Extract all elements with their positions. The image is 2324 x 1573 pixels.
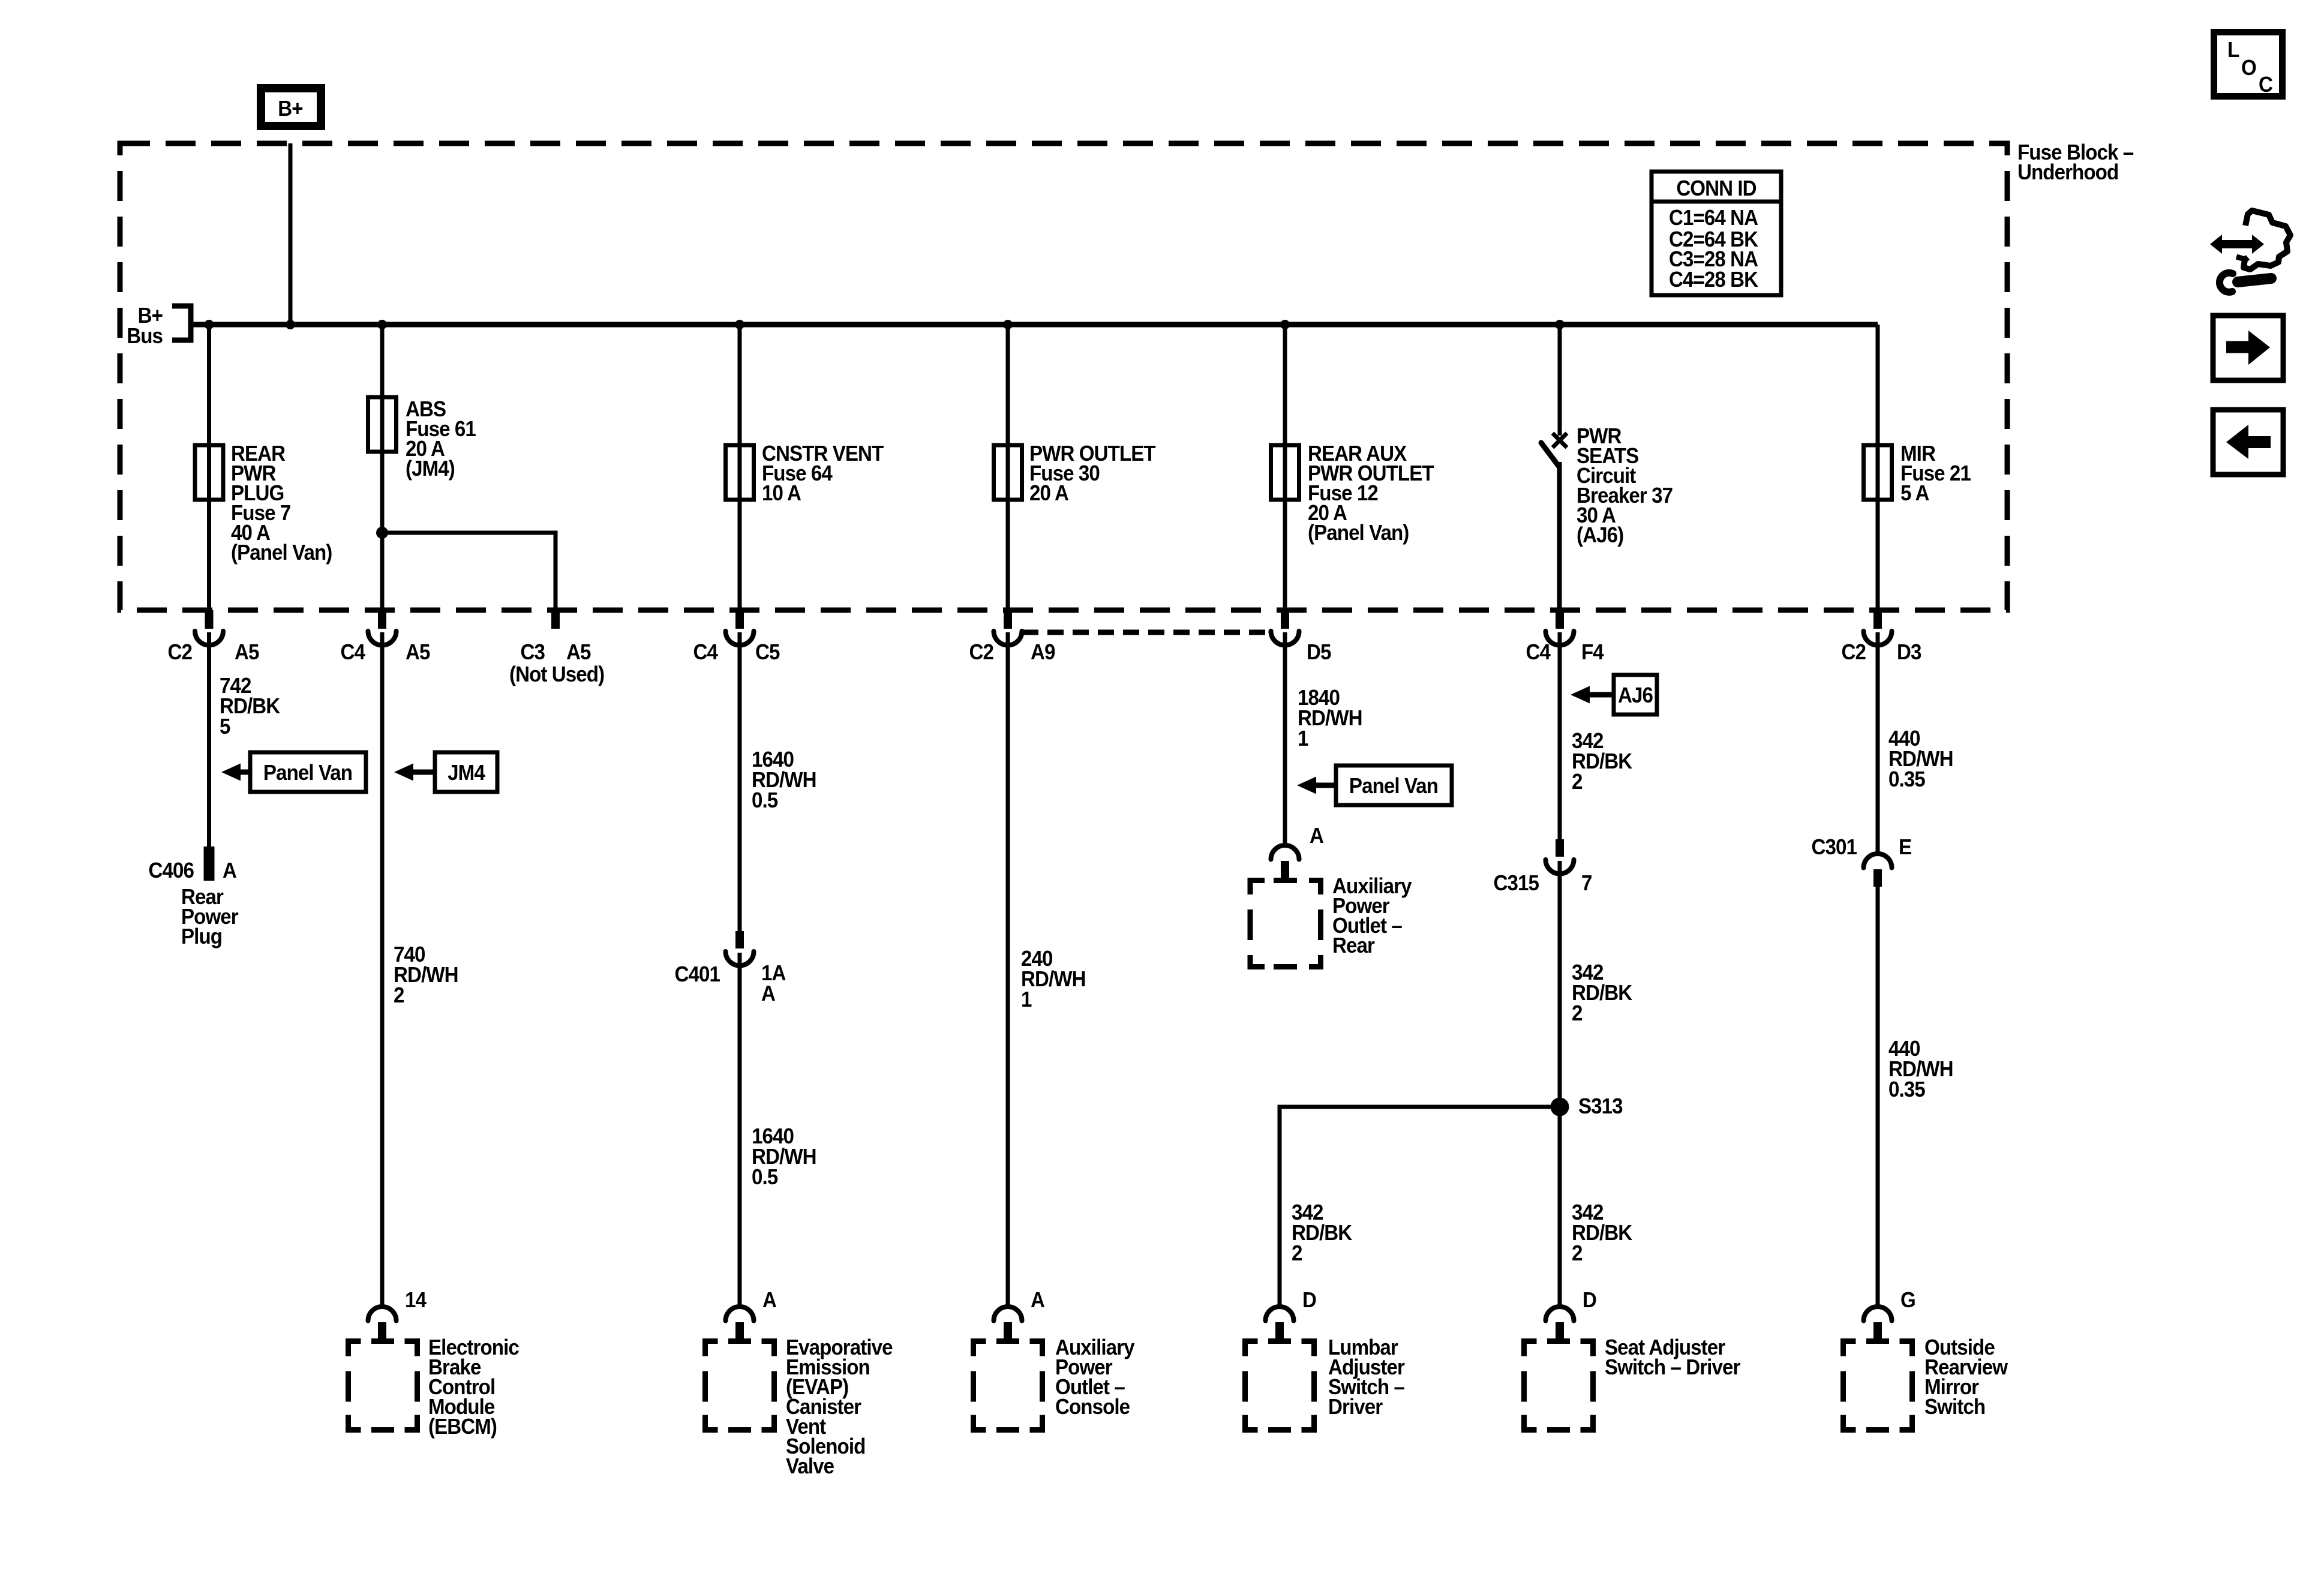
svg-text:F4: F4: [1581, 641, 1604, 665]
component box EBCM: [349, 1336, 520, 1439]
svg-text:Underhood: Underhood: [2017, 161, 2118, 185]
wire column6 lower: [1283, 632, 1287, 845]
wire B+ bus horizontal: [191, 322, 1878, 328]
wire label 1640 RD/WH 0.5 upper: [752, 748, 816, 813]
svg-text:2: 2: [1292, 1242, 1302, 1266]
svg-text:2: 2: [394, 984, 404, 1008]
wire label 742 RD/BK 5: [220, 674, 280, 739]
svg-text:(EBCM): (EBCM): [428, 1415, 497, 1439]
svg-text:D5: D5: [1307, 641, 1331, 665]
svg-text:Panel Van: Panel Van: [263, 761, 352, 785]
component box seat adjuster switch: [1524, 1336, 1740, 1430]
svg-text:Driver: Driver: [1328, 1395, 1383, 1419]
svg-text:0.35: 0.35: [1888, 1078, 1925, 1102]
svg-text:Console: Console: [1055, 1395, 1130, 1419]
wire column1 lower: [207, 632, 211, 846]
svg-text:1: 1: [1021, 988, 1032, 1012]
svg-text:0.35: 0.35: [1888, 768, 1925, 792]
connector A aux power outlet rear: [1271, 824, 1324, 878]
svg-text:0.5: 0.5: [752, 789, 778, 813]
svg-text:Plug: Plug: [181, 925, 222, 949]
svg-text:(Panel Van): (Panel Van): [231, 541, 332, 565]
svg-text:7: 7: [1581, 872, 1592, 896]
wire column8 upper: [1876, 325, 1880, 610]
connector C2-A5 col1: [168, 610, 260, 664]
node junction bus col7: [1555, 320, 1565, 329]
svg-text:D: D: [1302, 1289, 1316, 1313]
fuse block underhood dashed box: [120, 143, 2007, 610]
circuit breaker 37 PWR SEATS: [1541, 425, 1673, 548]
svg-text:CONN ID: CONN ID: [1676, 177, 1756, 201]
node junction ABS branch: [376, 527, 388, 539]
wire label 342 RD/BK 2 upper: [1572, 730, 1632, 794]
wire label 342 RD/BK 2 middle: [1572, 961, 1632, 1026]
wire label 342 RD/BK 2 seat: [1572, 1201, 1632, 1266]
wire column4 below C401: [738, 953, 742, 1307]
node junction bus col4: [735, 320, 744, 329]
svg-text:(Panel Van): (Panel Van): [1308, 521, 1409, 545]
svg-text:C2: C2: [969, 641, 993, 665]
fuse Fuse12 REAR AUX PWR OUTLET: [1271, 442, 1434, 545]
wire column2 upper: [380, 325, 385, 610]
svg-text:5: 5: [220, 715, 230, 739]
svg-text:A5: A5: [406, 641, 430, 665]
B+ power symbol box: [261, 88, 321, 126]
node junction bus col5: [1003, 320, 1013, 329]
svg-text:C1=64 NA: C1=64 NA: [1669, 206, 1758, 230]
component box aux power outlet console: [974, 1336, 1136, 1430]
fuse Fuse7 REAR PWR PLUG: [195, 442, 332, 565]
node junction bus col1: [205, 320, 214, 329]
component box EVAP solenoid valve: [705, 1336, 893, 1479]
svg-text:5 A: 5 A: [1900, 482, 1929, 506]
svg-text:O: O: [2241, 56, 2256, 80]
svg-text:A5: A5: [566, 641, 591, 665]
svg-text:C3: C3: [521, 641, 545, 665]
svg-text:(JM4): (JM4): [406, 457, 455, 481]
connector D lumbar adjuster switch: [1266, 1289, 1316, 1338]
svg-text:C4: C4: [1526, 641, 1551, 665]
icon arrow right box: [2213, 316, 2283, 380]
wire label 1640 RD/WH 0.5 lower: [752, 1125, 816, 1190]
wire column8 lower: [1876, 632, 1880, 854]
wire label 240 RD/WH 1: [1021, 947, 1086, 1012]
connector C2-A9 col5: [969, 610, 1055, 664]
wire column7 upper: [1558, 325, 1562, 436]
svg-text:D: D: [1583, 1289, 1596, 1313]
connector C4-A5 col2: [341, 610, 431, 664]
connector C315 7: [1494, 839, 1592, 895]
label Fuse Block - Underhood: [2017, 141, 2134, 185]
svg-text:Bus: Bus: [127, 325, 163, 349]
wire label 740 RD/WH 2: [394, 943, 458, 1008]
connector D5 col6: [1271, 610, 1332, 664]
wire column6 upper: [1283, 325, 1287, 610]
svg-text:Switch: Switch: [1924, 1395, 1985, 1419]
svg-text:A9: A9: [1031, 641, 1055, 665]
svg-text:2: 2: [1572, 1242, 1583, 1266]
connector C4-C5 col4: [693, 610, 780, 664]
connector C406-A rear power plug: [149, 846, 239, 948]
wire ABS branch to C3: [382, 533, 556, 610]
component box Auxiliary Power Outlet Rear: [1250, 875, 1412, 967]
wire dashed link col5-col6 connectors: [1022, 630, 1271, 635]
connector C301 E: [1812, 836, 1912, 887]
svg-text:E: E: [1899, 836, 1911, 860]
node junction bus B+: [286, 320, 295, 329]
LOC reference box: [2214, 32, 2283, 97]
svg-text:AJ6: AJ6: [1618, 684, 1653, 708]
svg-text:A: A: [762, 1289, 777, 1313]
svg-text:Valve: Valve: [786, 1455, 834, 1479]
wire column7 lower: [1558, 632, 1562, 839]
wire column2 lower: [380, 632, 385, 1307]
icon arrow left box: [2213, 410, 2283, 475]
svg-text:20 A: 20 A: [1029, 482, 1069, 506]
wire B+ to bus: [289, 143, 293, 325]
wire label 342 RD/BK 2 lumbar: [1292, 1201, 1352, 1266]
CONN ID table: [1652, 172, 1781, 295]
svg-text:C301: C301: [1812, 836, 1857, 860]
connector 14 EBCM: [368, 1289, 427, 1338]
svg-text:C5: C5: [755, 641, 780, 665]
connector A EVAP solenoid valve: [726, 1289, 777, 1338]
node splice S313: [1551, 1095, 1623, 1119]
svg-text:JM4: JM4: [448, 761, 485, 785]
svg-text:14: 14: [405, 1289, 427, 1313]
connector C2-D3 col8: [1842, 610, 1921, 664]
svg-text:C4: C4: [341, 641, 366, 665]
connector G outside rearview mirror switch: [1864, 1289, 1915, 1338]
icon engine harness wrench: [2210, 211, 2290, 292]
svg-text:C401: C401: [675, 963, 720, 987]
fuse Fuse21 MIR: [1864, 442, 1971, 506]
flag JM4 col2: [394, 752, 497, 792]
svg-text:C: C: [2259, 73, 2273, 97]
svg-text:C315: C315: [1494, 872, 1539, 896]
wire column8 below C301: [1876, 887, 1880, 1307]
wire column1 upper: [207, 325, 211, 610]
wire column5 lower: [1006, 632, 1010, 1307]
svg-text:(AJ6): (AJ6): [1577, 524, 1623, 548]
B+ Bus bracket: [127, 304, 191, 349]
svg-text:A5: A5: [235, 641, 259, 665]
wire column4 lower: [738, 632, 742, 931]
wire S313 branch to lumbar: [1280, 1107, 1560, 1307]
svg-text:C2: C2: [168, 641, 192, 665]
connector D seat adjuster switch: [1546, 1289, 1596, 1338]
connector C3-A5 not used: [509, 610, 604, 686]
connector C401 1A A: [675, 931, 786, 1005]
svg-text:Panel Van: Panel Van: [1349, 775, 1438, 798]
wire label 440 RD/WH 0.35 upper: [1888, 727, 1953, 792]
connector C4-F4 col7: [1526, 610, 1605, 664]
svg-text:C406: C406: [149, 859, 194, 883]
node junction bus col2: [377, 320, 387, 329]
svg-text:D3: D3: [1897, 641, 1921, 665]
svg-text:2: 2: [1572, 1002, 1583, 1026]
fuse Fuse30 PWR OUTLET: [994, 442, 1156, 506]
wire column5 upper: [1006, 325, 1010, 610]
svg-text:A: A: [1310, 824, 1324, 848]
svg-text:10 A: 10 A: [762, 482, 801, 506]
svg-text:C2: C2: [1842, 641, 1866, 665]
wire column7 below C315: [1558, 861, 1562, 1307]
svg-text:C4: C4: [693, 641, 719, 665]
flag Panel Van col1: [221, 752, 366, 792]
fuse Fuse61 ABS: [368, 397, 476, 481]
connector A aux power outlet console: [994, 1289, 1045, 1338]
wire column4 upper: [738, 325, 742, 610]
wire label 1840 RD/WH 1: [1298, 686, 1362, 751]
svg-text:B+: B+: [278, 97, 302, 121]
svg-text:A: A: [223, 859, 237, 883]
svg-text:G: G: [1900, 1289, 1915, 1313]
svg-text:L: L: [2227, 38, 2239, 62]
svg-text:Rear: Rear: [1332, 934, 1374, 958]
svg-text:2: 2: [1572, 770, 1583, 794]
wire column7 below breaker: [1559, 462, 1560, 610]
svg-text:A: A: [761, 982, 776, 1006]
svg-text:(Not Used): (Not Used): [509, 663, 604, 687]
svg-text:0.5: 0.5: [752, 1166, 778, 1190]
svg-text:C4=28 BK: C4=28 BK: [1669, 268, 1758, 292]
component box lumbar adjuster switch: [1245, 1336, 1405, 1430]
fuse Fuse64 CNSTR VENT: [726, 442, 884, 506]
svg-text:1: 1: [1298, 727, 1308, 751]
svg-text:Switch – Driver: Switch – Driver: [1605, 1356, 1740, 1380]
svg-text:S313: S313: [1578, 1095, 1623, 1119]
component box outside rearview mirror switch: [1843, 1336, 2008, 1430]
svg-text:A: A: [1031, 1289, 1045, 1313]
wire label 440 RD/WH 0.35 lower: [1888, 1037, 1953, 1102]
flag AJ6 col7: [1571, 675, 1657, 715]
flag Panel Van col6: [1297, 766, 1452, 805]
node junction bus col6: [1280, 320, 1290, 329]
